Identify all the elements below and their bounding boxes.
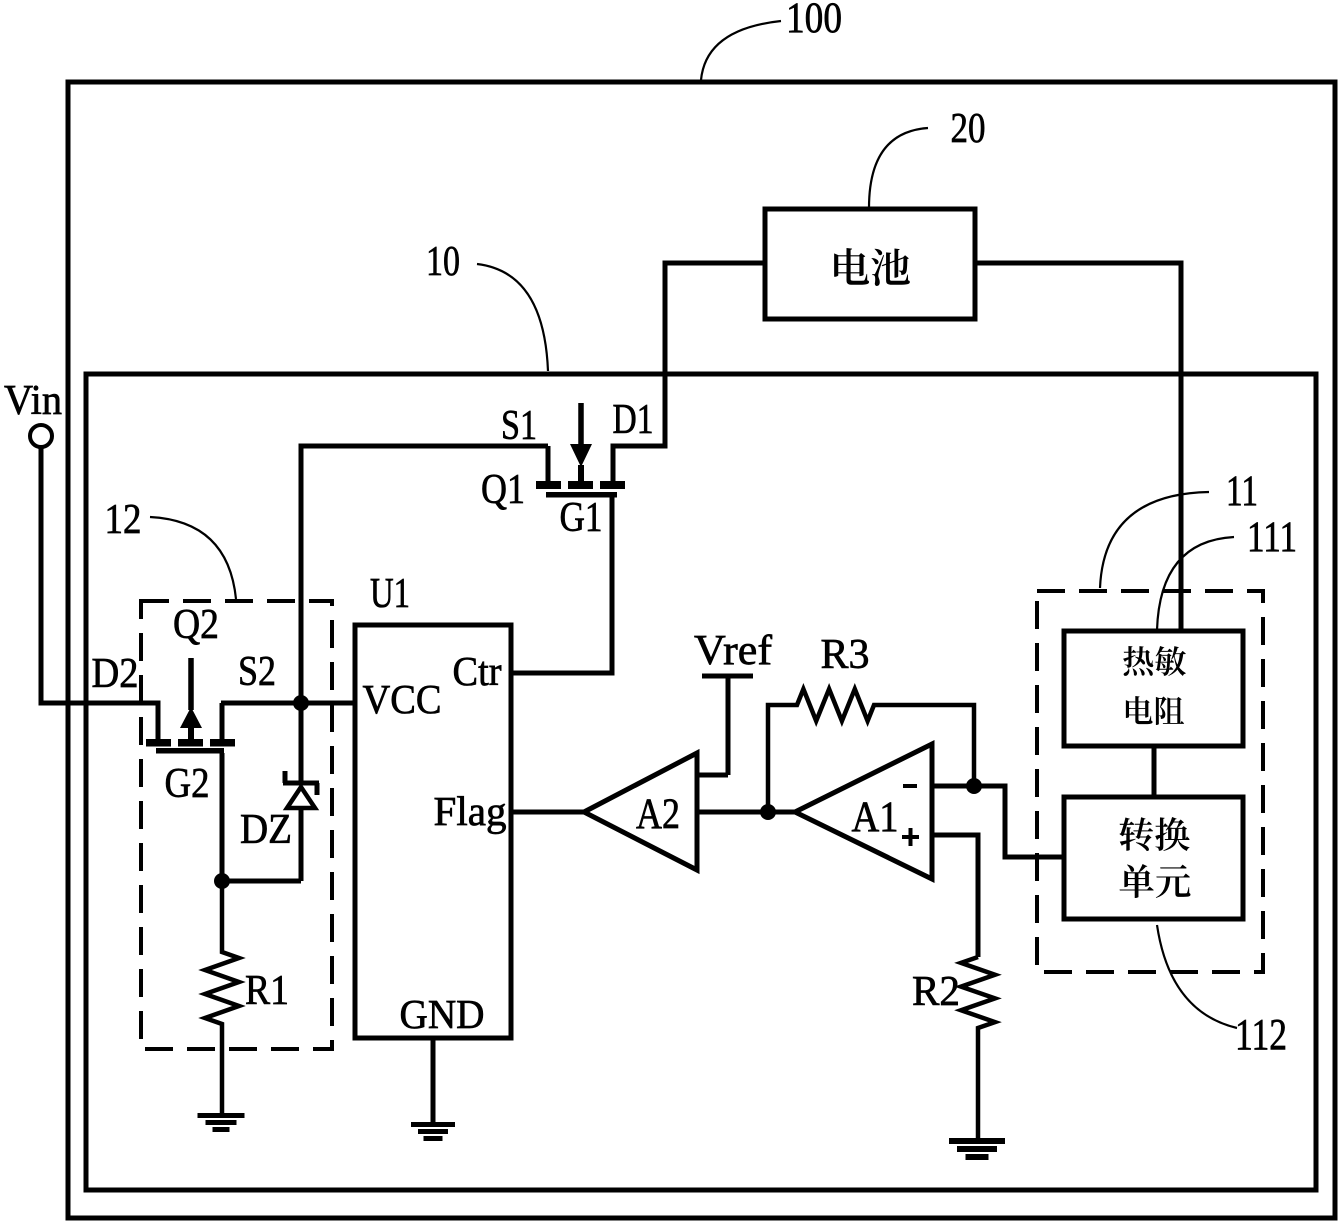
wire gate node to DZ anode [222, 879, 301, 884]
battery text 电池 [834, 248, 910, 286]
svg-text:U1: U1 [370, 571, 410, 617]
svg-text:VCC: VCC [363, 676, 442, 722]
wire S2 to U1 VCC pin [221, 701, 355, 706]
svg-text:D2: D2 [92, 651, 139, 697]
op-amp A1 [795, 744, 932, 879]
label 100 [701, 0, 842, 80]
svg-text:S1: S1 [501, 403, 537, 449]
comparator A2 [584, 753, 697, 870]
node A1 output junction [760, 804, 776, 820]
A1 inverting input marker [903, 784, 917, 788]
svg-text:111: 111 [1247, 514, 1297, 561]
svg-text:GND: GND [400, 991, 485, 1037]
label 12 [105, 497, 237, 599]
wire battery positive to Q1 drain [613, 263, 765, 481]
wire Q1 gate to U1 Ctr pin [511, 494, 612, 673]
svg-text:G1: G1 [560, 495, 603, 541]
svg-text:Vref: Vref [694, 628, 772, 674]
svg-text:Q1: Q1 [481, 467, 525, 513]
wire Q2 gate down to R1 [220, 753, 225, 881]
thermistor block 111 [1064, 631, 1243, 746]
protection circuit dashed box 12 [141, 601, 332, 1049]
resistor R2 [961, 957, 995, 1139]
A1 non-inverting input marker [902, 828, 919, 846]
svg-text:G2: G2 [165, 761, 210, 807]
node R3/inverting input junction [966, 778, 982, 794]
svg-text:11: 11 [1226, 468, 1258, 515]
thermistor text 热敏电阻 [1123, 646, 1186, 725]
svg-text:100: 100 [786, 0, 842, 42]
wire thermistor to conversion unit [1152, 745, 1157, 797]
Vin terminal [30, 425, 52, 447]
svg-text:S2: S2 [238, 649, 276, 695]
wire Vin to Q2 drain D2 [41, 447, 158, 740]
svg-text:12: 12 [105, 497, 142, 543]
IC U1 [355, 625, 511, 1038]
svg-text:20: 20 [951, 106, 986, 152]
svg-text:A2: A2 [636, 791, 680, 838]
label 111 [1157, 514, 1297, 630]
svg-text:D1: D1 [613, 397, 654, 443]
wire Flag to A2 output [511, 810, 584, 815]
label 20 [869, 106, 986, 208]
ground below R1 [198, 1113, 245, 1132]
svg-text:Flag: Flag [434, 788, 507, 834]
wire battery negative to thermistor 111 [975, 263, 1181, 629]
node G2/R1/DZ junction [214, 873, 230, 889]
transistor Q1 (PMOS) [536, 403, 625, 498]
svg-text:10: 10 [426, 239, 460, 285]
transistor Q2 (PMOS) [146, 658, 235, 754]
label 112 [1157, 925, 1287, 1059]
svg-text:DZ: DZ [240, 807, 292, 853]
svg-text:R3: R3 [821, 632, 870, 678]
svg-text:R2: R2 [912, 969, 960, 1015]
conversion unit block 112 [1064, 797, 1243, 919]
label 11 [1100, 468, 1258, 588]
resistor R1 [205, 881, 239, 1113]
zener diode DZ [283, 703, 319, 881]
svg-text:Q2: Q2 [173, 602, 219, 648]
wire A1 non-inverting input to R2 [932, 835, 978, 957]
ground below R2 [949, 1138, 1005, 1160]
wire S1 node to VCC junction [301, 446, 548, 703]
temperature detection dashed box 11 [1037, 591, 1263, 972]
Vref terminal [697, 676, 753, 775]
svg-text:112: 112 [1235, 1010, 1287, 1059]
label 10 [426, 239, 548, 371]
node S2/VCC junction [293, 695, 309, 711]
conversion unit text 转换单元 [1119, 817, 1190, 898]
svg-text:Vin: Vin [4, 378, 62, 424]
svg-text:A1: A1 [852, 794, 899, 841]
wire A1 output to A2 input [697, 810, 795, 815]
resistor R3 feedback loop [768, 689, 974, 812]
battery box 20 [765, 209, 975, 319]
wire A1 inverting input to conversion unit [932, 786, 1064, 857]
svg-text:Ctr: Ctr [453, 648, 502, 694]
wire U1 GND to ground [431, 1038, 436, 1122]
svg-text:R1: R1 [245, 968, 289, 1014]
inner charging circuit box 10 [86, 374, 1316, 1190]
ground below U1 [411, 1122, 455, 1141]
